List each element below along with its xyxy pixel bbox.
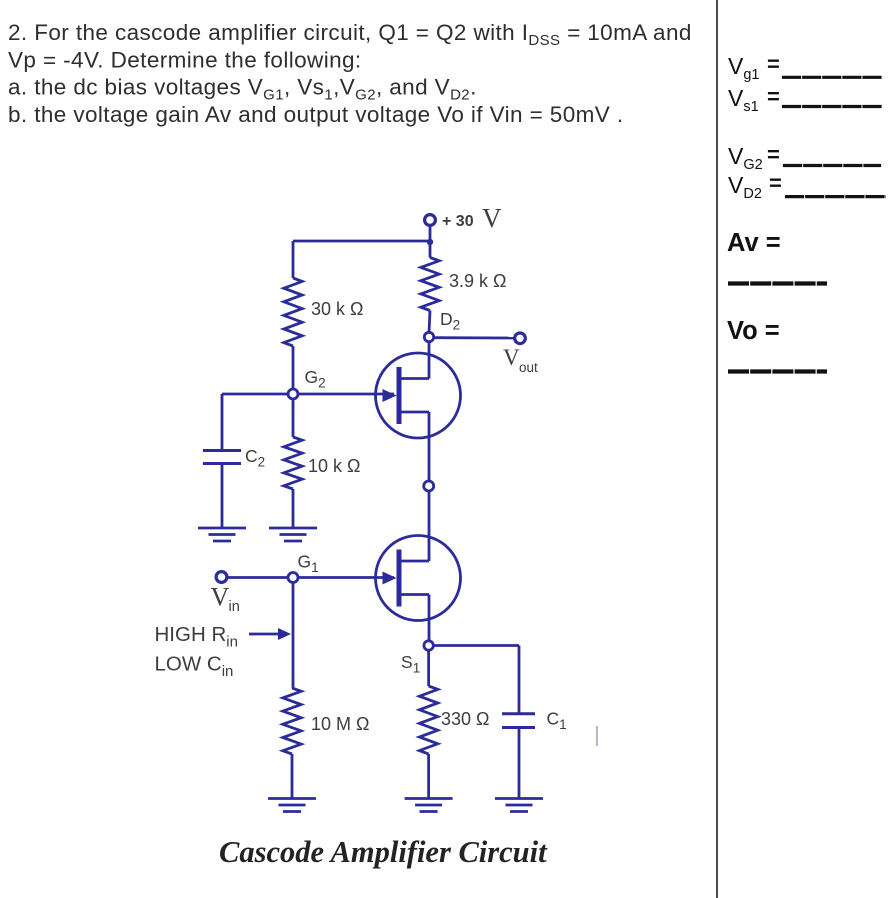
svg-text:Vp = -4V. Determine the follow: Vp = -4V. Determine the following: <box>8 48 362 73</box>
junction supply rail <box>427 239 433 245</box>
svg-text:Cascode Amplifier Circuit: Cascode Amplifier Circuit <box>219 835 548 869</box>
resistor 30k <box>284 278 302 346</box>
wire D2 to Vout <box>434 336 514 339</box>
svg-text:G2: G2 <box>305 367 326 391</box>
resistor 330 <box>419 686 437 754</box>
wire top rail <box>293 240 430 243</box>
svg-text:VD2: VD2 <box>728 172 762 202</box>
svg-text:C2: C2 <box>245 446 265 470</box>
svg-text:+ 30: + 30 <box>442 213 474 230</box>
resistor 10k <box>284 437 302 489</box>
wire S1 down to R330 <box>427 650 430 686</box>
wire Q1 source to S1 <box>428 595 431 642</box>
wire R10k to ground <box>292 489 295 528</box>
wire C2 to ground <box>221 464 224 529</box>
svg-text:out: out <box>519 360 538 375</box>
wire G1 down to R10M <box>292 583 295 689</box>
svg-text:Av =: Av = <box>727 229 781 257</box>
wire rail to R30k <box>292 241 295 278</box>
scan artifact mark <box>596 726 598 746</box>
svg-text:=: = <box>767 84 780 109</box>
svg-text:in: in <box>229 599 240 615</box>
svg-text:Vs1: Vs1 <box>728 85 759 115</box>
answer blank line 5 <box>728 281 827 285</box>
wire down to C2 <box>221 394 224 450</box>
wire R30k to G2 <box>292 346 295 389</box>
answer label Vg1 <box>728 52 780 84</box>
svg-text:V: V <box>503 345 520 370</box>
svg-text:10 k Ω: 10 k Ω <box>308 456 360 476</box>
svg-text:10 M Ω: 10 M Ω <box>311 714 369 734</box>
ground under C2 <box>198 527 246 530</box>
wire node to Q1 drain <box>428 491 431 561</box>
wire R330 to ground <box>427 754 430 798</box>
svg-text:VG2: VG2 <box>728 143 763 173</box>
answer blank line 3 <box>783 164 881 167</box>
problem statement text <box>8 20 692 127</box>
wire G2 to R10k <box>292 399 295 437</box>
wire R10M to ground <box>291 754 294 798</box>
node S1 <box>424 641 433 650</box>
svg-text:Vo =: Vo = <box>727 317 780 345</box>
svg-text:=: = <box>767 142 780 167</box>
svg-text:S1: S1 <box>401 652 420 676</box>
node D2 <box>424 332 433 341</box>
svg-text:3.9 k Ω: 3.9 k Ω <box>449 271 506 291</box>
svg-text:a. the dc bias voltages VG1, V: a. the dc bias voltages VG1, Vs1,VG2, an… <box>8 75 477 104</box>
transistor Q2 <box>376 353 461 438</box>
svg-text:LOW Cin: LOW Cin <box>155 653 234 681</box>
wire G2 to Q2 gate <box>298 393 394 396</box>
resistor 3.9k <box>421 258 439 311</box>
wire C1 to ground <box>518 728 521 799</box>
ground under R10M <box>268 797 316 800</box>
svg-text:b. the voltage gain Av and out: b. the voltage gain Av and output voltag… <box>8 102 623 127</box>
wire rail to R3.9k <box>429 242 432 258</box>
svg-text:D2: D2 <box>440 309 460 333</box>
ground under R10k <box>269 527 317 530</box>
wire down to C1 <box>518 646 521 714</box>
vertical separator line <box>716 0 718 898</box>
svg-text:V: V <box>211 583 230 612</box>
wire Q2 source down <box>428 412 431 481</box>
svg-text:30 k Ω: 30 k Ω <box>311 299 363 319</box>
wire Vin to G1 <box>227 576 288 579</box>
node G2 <box>288 389 298 399</box>
answer blank line 6 <box>728 369 827 373</box>
answer blank line 1 <box>782 76 882 79</box>
node G1 <box>288 573 298 583</box>
wire R3.9k to D2 <box>429 311 430 333</box>
capacitor C1 <box>502 712 535 715</box>
svg-text:2. For the cascode amplifier c: 2. For the cascode amplifier circuit, Q1… <box>8 20 692 49</box>
svg-text:V: V <box>482 203 502 233</box>
svg-text:Vg1: Vg1 <box>728 53 759 83</box>
answer blank line 4 <box>785 195 886 198</box>
terminal Vin <box>216 572 227 583</box>
ground under C1 <box>495 797 543 800</box>
wire Q2 drain to D2 <box>428 342 431 379</box>
node between transistors <box>424 481 434 491</box>
transistor Q1 <box>376 536 461 621</box>
capacitor C2 <box>203 449 241 452</box>
resistor 10M <box>283 688 301 754</box>
answer blank line 2 <box>782 105 882 108</box>
wire S1 right <box>433 644 519 647</box>
svg-text:HIGH Rin: HIGH Rin <box>155 623 238 651</box>
svg-text:330 Ω: 330 Ω <box>441 709 490 729</box>
arrow HIGH Rin <box>249 633 279 636</box>
svg-text:=: = <box>767 52 780 77</box>
answer label VG2 <box>728 142 780 173</box>
ground under R330 <box>405 797 453 800</box>
wire supply to rail <box>429 226 432 243</box>
+30V supply terminal <box>425 215 436 226</box>
svg-text:=: = <box>769 171 782 196</box>
wire G1 to Q1 gate <box>298 576 394 579</box>
answer label VD2 <box>728 171 782 203</box>
answer label Vs1 <box>728 84 780 115</box>
wire G2 left <box>222 393 288 396</box>
svg-text:C1: C1 <box>547 709 567 733</box>
terminal Vout <box>515 333 526 344</box>
svg-text:G1: G1 <box>298 552 319 576</box>
